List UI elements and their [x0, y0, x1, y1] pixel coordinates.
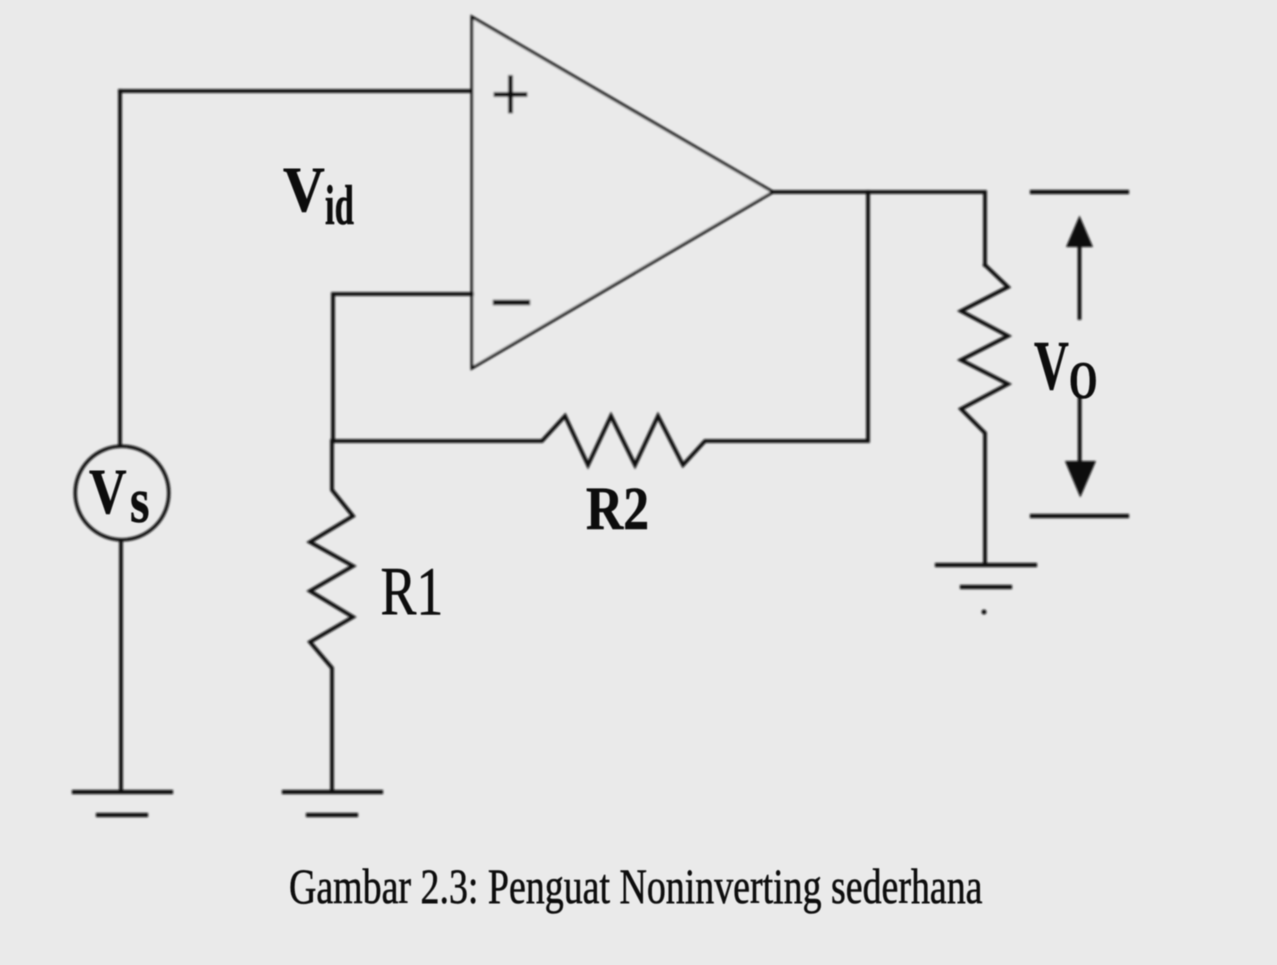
- svg-text:V: V: [1034, 327, 1069, 405]
- svg-text:R2: R2: [586, 476, 649, 543]
- svg-text:id: id: [325, 175, 354, 238]
- svg-text:R1: R1: [381, 554, 444, 630]
- svg-text:V: V: [89, 456, 127, 528]
- svg-text:V: V: [283, 154, 325, 226]
- svg-text:O: O: [1069, 350, 1097, 409]
- svg-text:s: s: [130, 464, 149, 537]
- svg-text:Gambar 2.3: Penguat Noninverti: Gambar 2.3: Penguat Noninverting sederha…: [289, 858, 983, 914]
